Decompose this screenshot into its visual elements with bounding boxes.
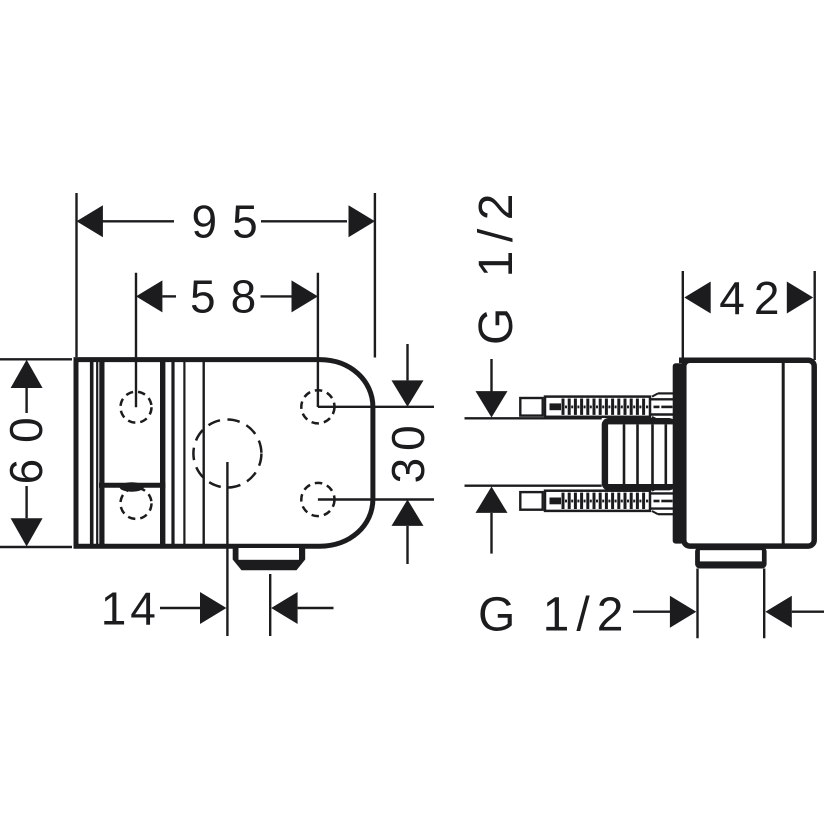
svg-text:95: 95 [192, 196, 273, 248]
svg-text:G 1/2: G 1/2 [478, 589, 630, 642]
svg-text:60: 60 [0, 401, 52, 484]
svg-text:58: 58 [190, 271, 271, 323]
svg-text:14: 14 [101, 582, 160, 634]
svg-text:42: 42 [719, 272, 788, 324]
svg-text:G 1/2: G 1/2 [470, 185, 523, 345]
svg-text:30: 30 [382, 418, 434, 483]
